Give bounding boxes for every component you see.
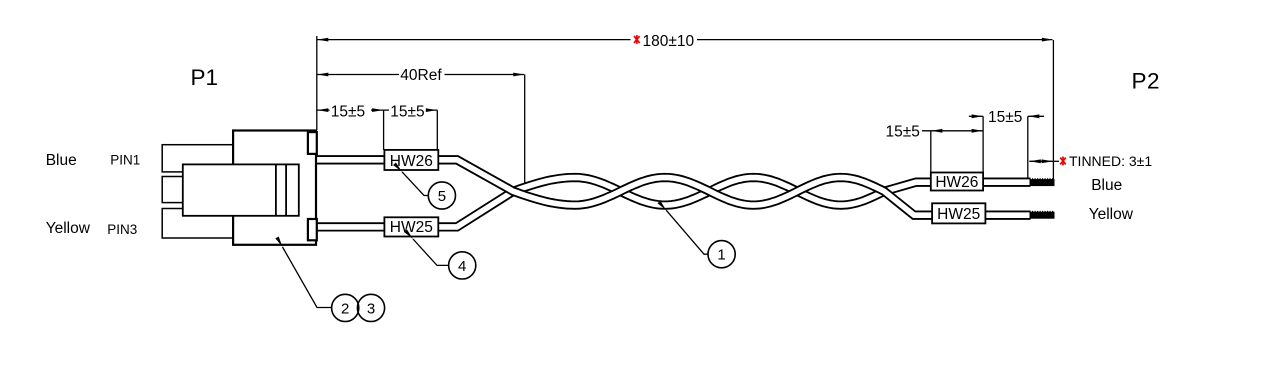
heat shrink HW26 left box: [384, 150, 438, 170]
P1 lower wire tab: [308, 219, 317, 240]
svg-text:3: 3: [367, 300, 375, 317]
inner housing rib line 2: [285, 164, 287, 215]
svg-text:P2: P2: [1132, 68, 1161, 93]
svg-text:P1: P1: [191, 65, 219, 90]
leader balloon 5 (HW26): [402, 172, 456, 209]
dimension 15±5 left first: [317, 110, 438, 150]
heat shrink HW25 right box: [932, 203, 985, 223]
dimension TINNED 3±1: [1029, 160, 1059, 162]
dimension 15±5 right (tube to tinned): [969, 116, 1044, 178]
svg-text:Yellow: Yellow: [46, 220, 91, 237]
wire W1 Blue twisted pair (over wire, P1 PIN1 to P2 bottom): [316, 160, 1031, 215]
svg-text:180±10: 180±10: [643, 33, 695, 50]
svg-text:Blue: Blue: [1091, 177, 1122, 194]
svg-text:1: 1: [717, 247, 725, 264]
svg-text:PIN3: PIN3: [107, 222, 137, 237]
tinned end top (Blue P2): [1030, 179, 1055, 186]
svg-text:TINNED: 3±1: TINNED: 3±1: [1069, 153, 1152, 169]
svg-text:HW25: HW25: [937, 206, 980, 223]
dimension 40Ref: [317, 75, 525, 183]
svg-text:PIN1: PIN1: [110, 152, 140, 167]
svg-text:15±5: 15±5: [390, 103, 424, 120]
svg-text:40Ref: 40Ref: [400, 67, 442, 84]
svg-text:HW25: HW25: [390, 219, 433, 236]
svg-text:HW26: HW26: [935, 174, 978, 191]
svg-text:15±5: 15±5: [886, 124, 920, 141]
pin middle terminal: [162, 177, 190, 203]
connector P1 body: [162, 131, 317, 245]
svg-text:Blue: Blue: [46, 152, 77, 169]
leader balloon 2 3 (connector): [283, 247, 385, 322]
pin PIN3 terminal (bottom): [162, 209, 233, 239]
svg-text:15±5: 15±5: [331, 103, 365, 120]
leader balloon 1 (twisted pair): [666, 210, 735, 268]
svg-text:Yellow: Yellow: [1089, 206, 1134, 223]
heat shrink HW26 right box: [931, 173, 983, 191]
heat shrink HW25 left box: [384, 217, 438, 236]
P1 housing main body: [233, 131, 316, 245]
dimension 180±10: [317, 36, 1054, 179]
tinned end bottom (Yellow P2): [1030, 212, 1055, 219]
P1 inner housing: [183, 164, 299, 215]
inner housing rib line 1: [275, 164, 277, 215]
leader balloon 4 (HW25): [413, 239, 476, 279]
dimension 15±5 right (tube length): [922, 116, 983, 172]
svg-text:2: 2: [341, 300, 349, 317]
pin PIN1 terminal (top): [162, 145, 233, 172]
svg-text:15±5: 15±5: [988, 109, 1022, 126]
svg-text:5: 5: [438, 188, 446, 205]
svg-text:4: 4: [458, 258, 466, 275]
P1 upper wire tab: [308, 132, 317, 154]
wire W2 Yellow twisted pair (under wire, P1 PIN3 to P2 top): [316, 178, 1031, 227]
